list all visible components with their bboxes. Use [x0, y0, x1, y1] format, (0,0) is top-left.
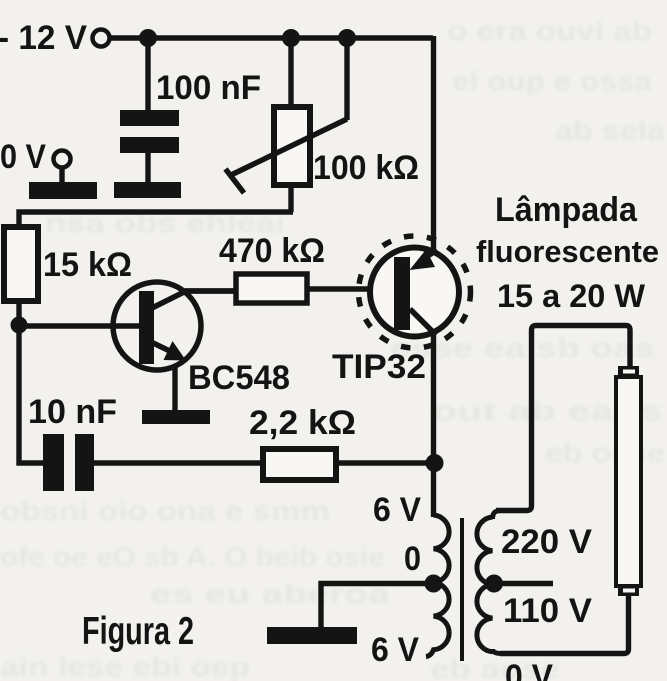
ground under 0V — [29, 182, 97, 199]
svg-text:100 nF: 100 nF — [156, 69, 261, 107]
svg-text:Lâmpada: Lâmpada — [495, 191, 638, 229]
svg-text:0 V: 0 V — [0, 138, 46, 176]
svg-text:fluorescente: fluorescente — [476, 234, 659, 269]
capacitor C2 10nF — [43, 434, 94, 491]
wire BC548 collector to 470k — [179, 288, 235, 293]
potentiometer P1 100k body — [274, 107, 310, 185]
svg-text:6 V: 6 V — [373, 491, 421, 529]
wire 10nF to 2.2k — [93, 460, 262, 465]
svg-text:ab sela: ab sela — [555, 116, 666, 146]
transformer T1 core — [460, 518, 464, 661]
wire pot top — [288, 38, 293, 108]
svg-text:470 kΩ: 470 kΩ — [219, 232, 325, 270]
wire node down left column — [19, 325, 44, 463]
junction dot supply B — [282, 29, 300, 47]
resistor R3 2.2k — [263, 449, 336, 480]
transistor Q1 BC548 — [113, 282, 236, 370]
junction dot primary center tap — [425, 575, 443, 593]
wire TIP32 collector down to transformer — [431, 334, 436, 517]
wire 100nF lower to ground — [145, 152, 150, 182]
svg-text:eb osse: eb osse — [545, 438, 665, 468]
secondary top lead curve — [493, 511, 511, 520]
terminal 0V — [54, 151, 71, 168]
svg-text:0: 0 — [404, 540, 421, 578]
wire right vertical to TIP32 — [431, 36, 436, 249]
svg-text:0 V: 0 V — [505, 658, 553, 681]
wire secondary 110V tap — [497, 581, 553, 586]
svg-text:100 kΩ: 100 kΩ — [313, 149, 419, 187]
wire 100nF drop — [145, 38, 150, 110]
svg-text:Figura 2: Figura 2 — [82, 610, 194, 653]
svg-text:220 V: 220 V — [501, 523, 592, 561]
wire BC548 base — [19, 323, 140, 328]
wire top rail — [110, 35, 433, 40]
transistor Q2 TIP32 — [359, 236, 471, 348]
potentiometer P1 wiper — [226, 119, 348, 193]
junction dot supply A — [139, 29, 157, 47]
ground for primary center tap — [267, 627, 357, 644]
lamp LP1 fluorescent tube — [616, 366, 641, 596]
svg-text:ei oup e ossa: ei oup e ossa — [452, 66, 653, 96]
resistor R1 15k — [4, 227, 38, 301]
svg-text:- 12 V: - 12 V — [0, 19, 87, 57]
svg-text:110 V: 110 V — [503, 592, 592, 630]
svg-text:10 nF: 10 nF — [28, 393, 117, 431]
secondary bottom lead curve — [493, 649, 511, 654]
svg-text:15 a 20 W: 15 a 20 W — [497, 278, 646, 314]
wire 15k to node — [16, 301, 21, 325]
resistor R2 470k — [236, 274, 307, 303]
transformer T1 secondary winding — [477, 517, 493, 652]
svg-text:obsni oio ona e smm: obsni oio ona e smm — [0, 496, 330, 526]
wire BC548 emitter down — [172, 366, 177, 410]
transformer T1 primary winding — [426, 515, 449, 657]
junction dot secondary center tap — [485, 575, 503, 593]
wire pot wiper feed — [344, 38, 349, 120]
ground under Q1 emitter — [142, 410, 210, 424]
junction dot supply C — [338, 29, 356, 47]
svg-text:ain lese ebi oep: ain lese ebi oep — [0, 652, 250, 681]
ground under C1 — [114, 182, 181, 198]
svg-text:15 kΩ: 15 kΩ — [43, 246, 132, 284]
wire primary center tap to ground — [321, 584, 433, 629]
svg-text:o era ouvi ab: o era ouvi ab — [447, 16, 652, 46]
supply terminal -12V — [93, 30, 110, 47]
wire 2.2k to collector node — [336, 460, 433, 465]
wire 0V terminal drop — [59, 167, 64, 182]
svg-text:ofe oe eO sb A. O beib osie: ofe oe eO sb A. O beib osie — [0, 542, 385, 572]
svg-text:2,2 kΩ: 2,2 kΩ — [249, 404, 356, 442]
wire pot bottom — [288, 184, 293, 212]
junction dot collector node — [426, 454, 444, 472]
wire rail y212 — [19, 212, 293, 227]
wire secondary top loop — [496, 326, 630, 511]
capacitor C1 100nF — [120, 110, 179, 153]
svg-text:6 V: 6 V — [371, 631, 419, 669]
svg-text:TIP32: TIP32 — [332, 348, 426, 386]
svg-text:BC548: BC548 — [188, 359, 290, 397]
junction dot base node — [11, 317, 28, 334]
wire 470k to TIP32 base — [307, 286, 395, 291]
wire secondary bottom to lamp — [500, 596, 629, 654]
